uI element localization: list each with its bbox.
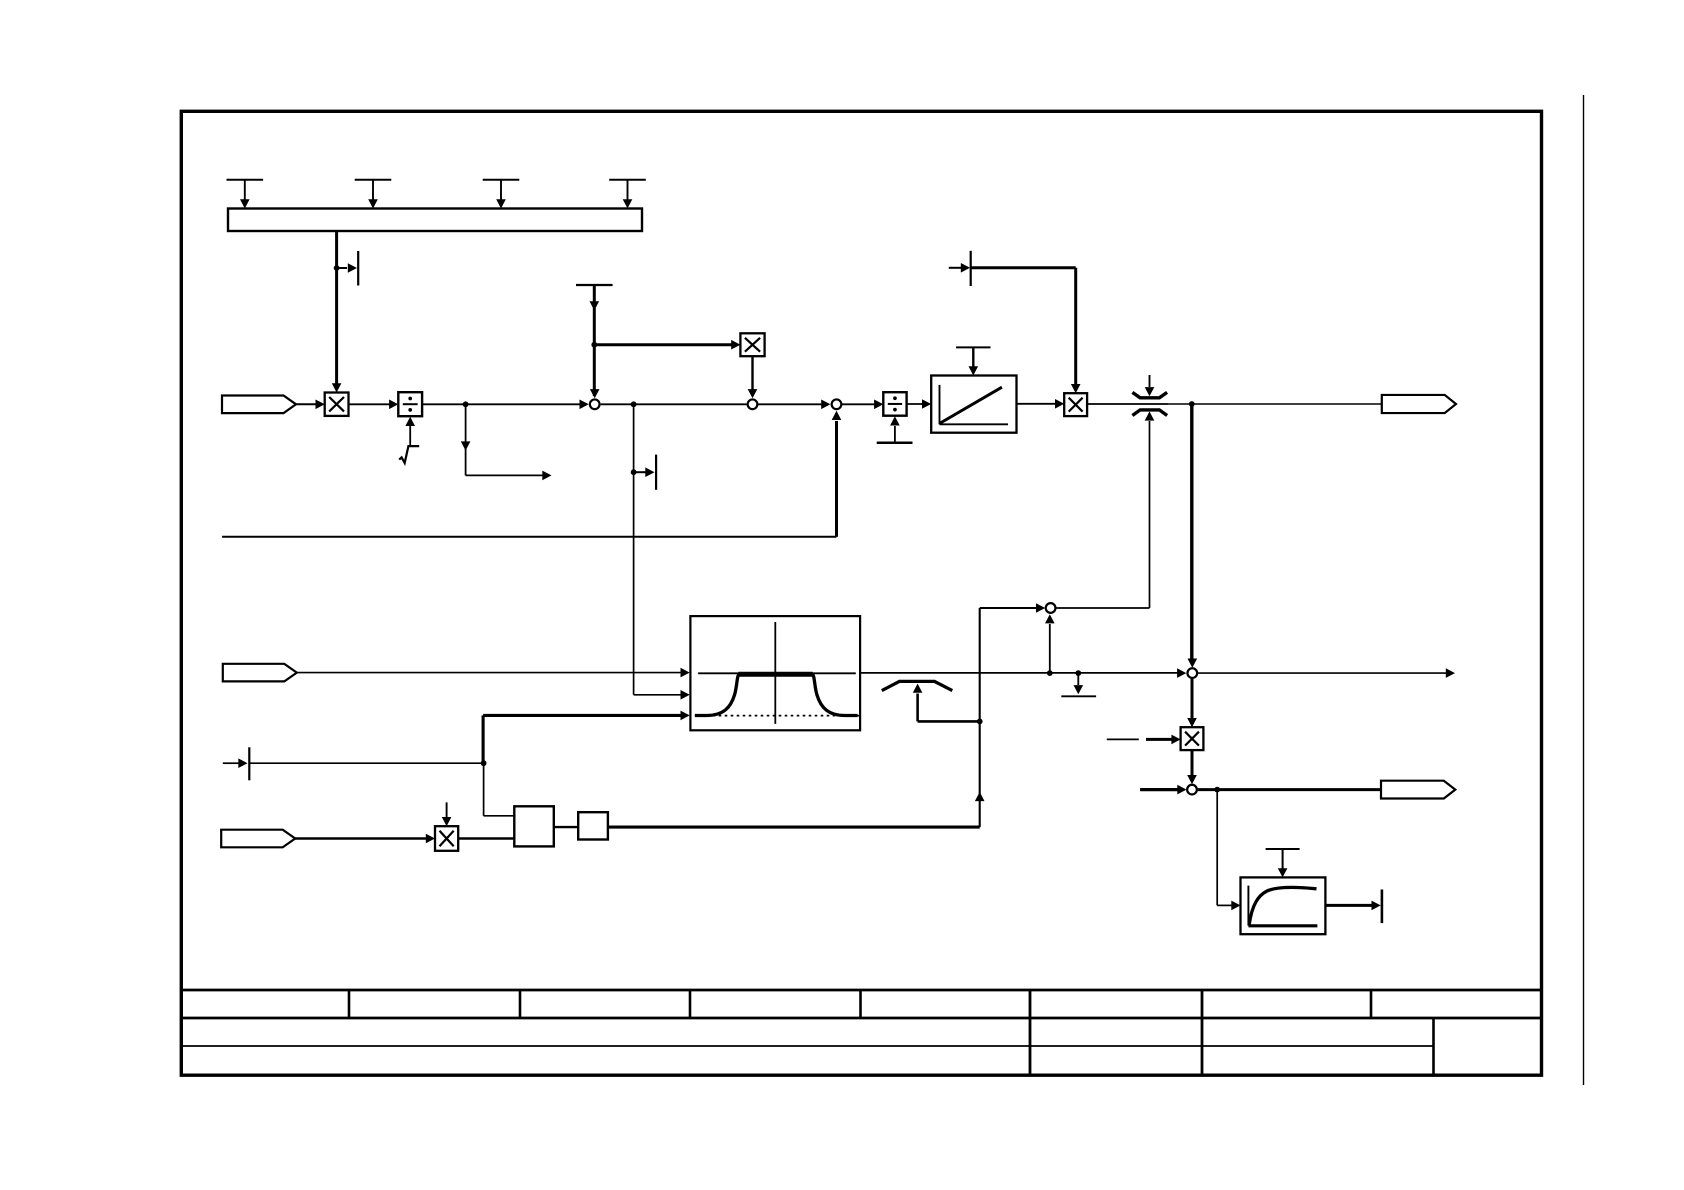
arrow into S5: [1177, 668, 1186, 678]
wire S1 to S2: [601, 403, 747, 405]
multiplier M3: [1064, 393, 1087, 416]
wire S5 down to M4: [1187, 678, 1197, 727]
summing point S3: [832, 399, 842, 409]
thick wire into S6 from left: [1140, 785, 1186, 795]
bare parameter arrow above M5: [442, 802, 452, 826]
multiplier M2: [740, 333, 764, 356]
wire IN2 to friction block: [296, 668, 690, 678]
vertical wire from junction down to friction block input 2: [634, 404, 690, 699]
title block: [181, 990, 1541, 1076]
constant-1 bar below D2: [877, 416, 913, 443]
sqrt symbol input to D1: [399, 417, 419, 463]
connector tap tick at left: [223, 747, 250, 780]
roof symbol: [882, 681, 980, 721]
junction dot on riser: [977, 719, 983, 725]
multiplier M1: [325, 393, 349, 416]
multiplier M4: [1181, 727, 1204, 750]
wire B2 to B3: [554, 826, 578, 828]
wire S3 to D2: [842, 400, 884, 410]
filter output wire to tick: [1325, 890, 1382, 924]
drawing frame: [181, 111, 1541, 1075]
filter block F2: [1241, 877, 1326, 934]
wire friction block to S5: [860, 672, 1178, 674]
branch wire down-right (to r0066): [461, 404, 552, 480]
thick wire B3 to riser: [608, 826, 980, 829]
input connector IN2: [223, 664, 297, 682]
wire IN1 to M1: [296, 400, 325, 410]
sheet margin line: [1583, 95, 1585, 1085]
connector tap arrow and tick at 472: [634, 455, 657, 490]
wire D2 to ramp block: [907, 399, 932, 409]
junction dot mid line 2: [1075, 670, 1081, 676]
upper path: tick connector to M3: [949, 251, 1081, 393]
summing point S2: [748, 399, 758, 409]
wire mid junction up into S4: [1045, 614, 1055, 673]
wire junction down to B2: [484, 763, 515, 816]
wire S2 to S3: [758, 400, 831, 410]
thick wire junction down to S5: [1188, 404, 1198, 668]
zero marker below mid line: [1061, 673, 1096, 696]
riser wire from B3 up to S4: [975, 603, 1045, 827]
junction dot after D1: [463, 401, 469, 407]
junction dot between S1 and S2: [631, 401, 637, 407]
block B3: [578, 812, 608, 839]
wire bar to M1: [332, 231, 342, 393]
wire limiter to OUT1: [1168, 403, 1382, 405]
output connector OUT2: [1381, 781, 1455, 799]
wire junction down to filter F2: [1217, 790, 1240, 911]
wire junction up to friction input 3 corner: [482, 715, 485, 763]
parameter input arrow 1: [227, 180, 264, 209]
parameter T above ramp block: [956, 347, 990, 375]
junction dot at 483: [481, 760, 487, 766]
block B2: [514, 806, 554, 846]
wire M3 to limiter: [1087, 403, 1168, 405]
friction characteristic block B1: [690, 616, 860, 730]
summing point S1: [590, 399, 600, 409]
junction dot mid line 1: [1047, 670, 1053, 676]
wire S4 to limiter lower input: [1056, 607, 1149, 609]
connector tap arrow and tick: [337, 251, 359, 286]
wire F1 to M3: [1017, 399, 1065, 409]
friction block input arrow 3 (thick): [483, 711, 690, 721]
wire M5 to B2: [458, 837, 514, 839]
wire tick to junction: [249, 762, 483, 764]
summing point S5: [1187, 668, 1197, 678]
summing point S4: [1046, 603, 1056, 613]
wire IN3 to M5: [295, 834, 436, 844]
output connector OUT1: [1382, 395, 1456, 413]
wire M1 to D1: [349, 400, 399, 410]
wire junction to M2: [594, 340, 740, 350]
parameter input arrow 2: [355, 180, 392, 209]
divider D1: [398, 392, 422, 416]
junction dot after limiter: [1189, 401, 1195, 407]
wire S5 to right arrow end: [1197, 668, 1455, 678]
limiter symbol: [1132, 375, 1167, 608]
divider D2: [883, 392, 906, 416]
wire D1 to S1: [422, 400, 589, 410]
wire S6 to OUT2: [1198, 788, 1381, 791]
parameter T above S1 with branch to M2: [576, 285, 613, 398]
parameter input arrow 4: [609, 180, 646, 209]
input connector IN3: [221, 830, 295, 848]
summing point S6: [1187, 785, 1197, 795]
parameter T above filter: [1266, 849, 1300, 877]
wire M4 down to S6: [1187, 750, 1197, 784]
ramp-function block F1: [931, 376, 1016, 433]
feedback wire y536 into S3: [222, 411, 841, 537]
stub wires into M4: [1107, 735, 1181, 745]
junction dot on T stem: [591, 342, 597, 348]
junction dot r0077 tap: [334, 265, 340, 271]
parameter bar: [228, 209, 642, 232]
input connector IN1: [222, 396, 296, 414]
junction dot after S6: [1214, 787, 1220, 793]
parameter input arrow 3: [483, 180, 520, 209]
multiplier M5: [435, 826, 458, 851]
wire M2 down to S2: [748, 356, 758, 398]
junction dot tap at 472: [631, 469, 637, 475]
